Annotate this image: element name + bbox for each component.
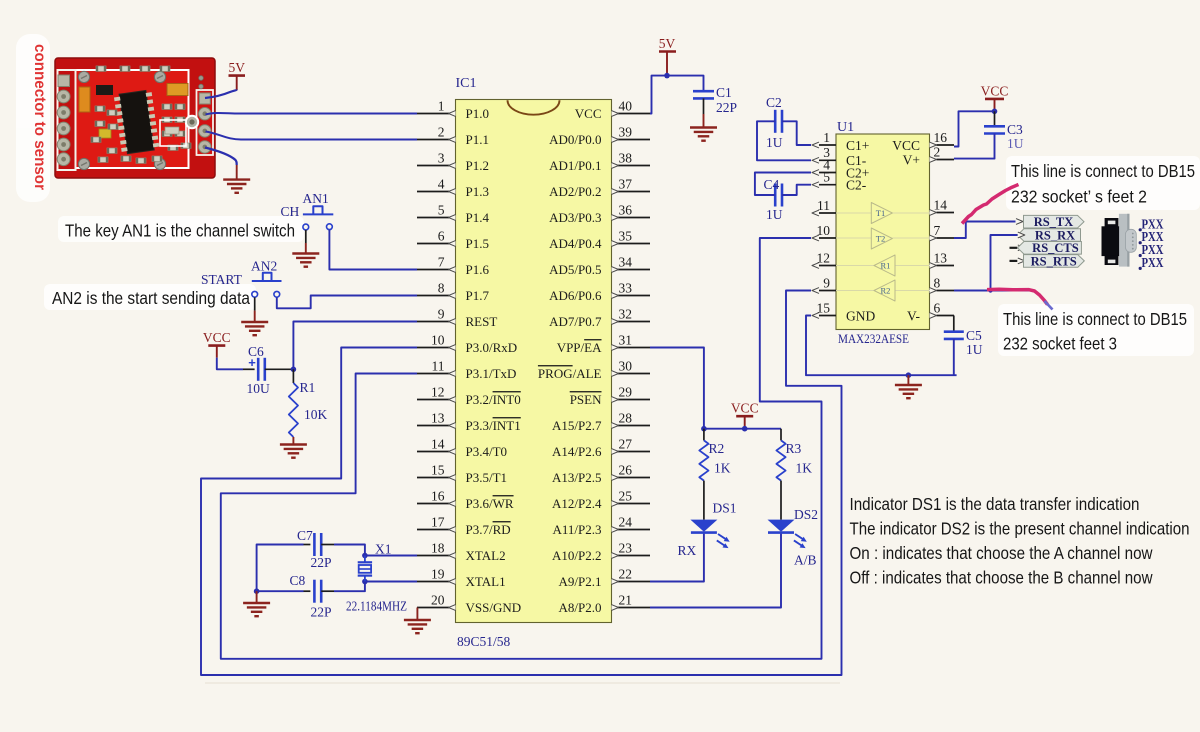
IC1 pin 12 P3.2 <box>417 384 521 407</box>
IC1 pin 29 <box>570 384 650 407</box>
IC1 pin 25 A12/P2.4 <box>552 488 650 511</box>
svg-text:P1.7: P1.7 <box>466 288 490 303</box>
svg-text:12: 12 <box>431 384 445 399</box>
wire U1 pin8 net <box>954 290 1031 292</box>
ground below C7C8 <box>243 603 270 616</box>
svg-text:10U: 10U <box>247 381 271 396</box>
svg-text:C5: C5 <box>966 328 982 343</box>
IC1 pin 5 P1.4 <box>417 202 489 225</box>
text DS1 line1 <box>850 494 1140 514</box>
svg-text:P3.1/TxD: P3.1/TxD <box>466 366 517 381</box>
svg-text:VCC: VCC <box>892 138 920 153</box>
IC1 pin 28 A15/P2.7 <box>552 410 650 433</box>
svg-text:38: 38 <box>619 150 633 165</box>
IC1 pin 39 AD0/P0.0 <box>549 124 650 147</box>
IC1 pin 19 XTAL1 <box>417 566 506 589</box>
svg-text:39: 39 <box>619 124 633 139</box>
svg-text:PSEN: PSEN <box>570 392 602 407</box>
svg-text:13: 13 <box>431 410 445 425</box>
svg-text:33: 33 <box>619 280 633 295</box>
svg-text:2: 2 <box>934 144 941 159</box>
svg-text:11: 11 <box>432 358 445 373</box>
wire U1 pin6 to C5 <box>953 316 955 332</box>
net port RS_TX <box>1024 215 1085 229</box>
power 5V symbol at module <box>228 60 245 90</box>
net port RS_RTS <box>1024 254 1085 268</box>
svg-text:T2: T2 <box>876 234 885 244</box>
svg-text:This line is connect to DB15: This line is connect to DB15 <box>1011 161 1195 181</box>
U1 pin 2 V+ <box>903 144 954 167</box>
U1 pin 8 <box>930 275 955 293</box>
wire VCC rail R2 to R3 <box>704 428 781 430</box>
U1 receiver R2 <box>874 280 895 301</box>
U1 pin 7 <box>930 223 955 241</box>
junction VCC/C3/pin16 <box>992 109 998 115</box>
svg-text:AD4/P0.4: AD4/P0.4 <box>549 236 602 251</box>
crystal X1 <box>358 556 372 582</box>
wire-arrow into RS_RTS <box>1018 258 1025 264</box>
wire IC1 pin20 to ground <box>416 608 418 621</box>
power VCC symbol near C3 <box>981 83 1009 99</box>
IC1 pin 34 AD5/P0.5 <box>549 254 650 277</box>
wire net TxD: U1 pin10 to IC1 pin11 <box>221 238 822 659</box>
junction 5V/C1/pin40 <box>664 73 670 79</box>
IC1 pin 26 A13/P2.5 <box>552 462 650 485</box>
IC1 pin 15 P3.5/T1 <box>417 462 507 485</box>
ground below C1 <box>690 128 717 141</box>
svg-text:VSS/GND: VSS/GND <box>466 600 522 615</box>
svg-text:1K: 1K <box>714 461 731 476</box>
svg-text:C2: C2 <box>766 95 782 110</box>
svg-text:24: 24 <box>619 514 633 529</box>
power VCC symbol near C6 <box>203 330 231 346</box>
svg-text:9: 9 <box>823 275 830 290</box>
U1 pin 13 <box>930 250 955 268</box>
wire junction to IC1 pin9 <box>293 322 417 370</box>
svg-text:A13/P2.5: A13/P2.5 <box>552 470 601 485</box>
svg-text:V-: V- <box>907 308 921 323</box>
svg-text:19: 19 <box>431 566 445 581</box>
svg-text:6: 6 <box>438 228 445 243</box>
resistor R2 lead <box>703 429 705 441</box>
wire-arrow into RS_RX <box>1018 232 1025 238</box>
svg-text:PROG/ALE: PROG/ALE <box>538 366 602 381</box>
capacitor C2 <box>775 110 782 133</box>
svg-text:30: 30 <box>619 358 633 373</box>
R1 labels <box>300 380 328 422</box>
C1 value labels <box>716 85 737 115</box>
svg-text:10K: 10K <box>304 407 328 422</box>
svg-text:connector to sensor: connector to sensor <box>31 44 48 190</box>
svg-text:1: 1 <box>823 130 830 145</box>
U1 pin 15 GND <box>812 300 875 323</box>
capacitor C1 <box>693 91 714 98</box>
IC1 pin 14 P3.4/T0 <box>417 436 507 459</box>
svg-text:AN1: AN1 <box>303 191 329 206</box>
junction GND rail <box>906 372 912 378</box>
svg-text:10: 10 <box>431 332 445 347</box>
svg-text:AD0/P0.0: AD0/P0.0 <box>549 132 601 147</box>
CH net label <box>281 204 300 219</box>
text Off line4 <box>850 568 1153 588</box>
HX711 sensor module photo <box>55 58 215 178</box>
svg-text:5: 5 <box>438 202 445 217</box>
IC1 pin 2 P1.1 <box>417 124 489 147</box>
IC1 part label 89C51/58 <box>457 634 511 649</box>
wire module pad to ground <box>205 148 237 166</box>
svg-text:8: 8 <box>438 280 445 295</box>
svg-text:VCC: VCC <box>981 83 1009 98</box>
svg-text:The key AN1 is the channel swi: The key AN1 is the channel switch <box>65 221 295 241</box>
switch AN2 symbol <box>252 273 282 297</box>
svg-text:29: 29 <box>619 384 633 399</box>
IC1 pin 37 AD2/P0.2 <box>549 176 650 199</box>
resistor R2 <box>699 440 708 480</box>
stub RS_RTS <box>1010 260 1018 262</box>
svg-text:18: 18 <box>431 540 445 555</box>
wire C8 right to X1 net <box>321 582 365 592</box>
svg-text:AN2 is the start sending data: AN2 is the start sending data <box>52 288 250 308</box>
svg-text:22: 22 <box>619 566 633 581</box>
U1 pin 12 <box>812 250 836 268</box>
svg-text:MAX232AESE: MAX232AESE <box>838 331 909 346</box>
U1 part label MAX232AESE <box>838 331 909 346</box>
svg-text:1U: 1U <box>1007 136 1024 151</box>
svg-text:RS_RTS: RS_RTS <box>1031 254 1077 268</box>
ground below U1 <box>895 375 922 398</box>
svg-text:31: 31 <box>619 332 633 347</box>
wire module to IC1 pin2 <box>206 132 418 140</box>
svg-text:7: 7 <box>438 254 445 269</box>
capacitor C6 polar <box>248 355 265 381</box>
svg-text:P1.6: P1.6 <box>466 262 490 277</box>
svg-text:1: 1 <box>438 98 445 113</box>
svg-text:AD6/P0.6: AD6/P0.6 <box>549 288 602 303</box>
svg-text:A8/P2.0: A8/P2.0 <box>559 600 602 615</box>
svg-text:32: 32 <box>619 306 633 321</box>
ground below AN2 <box>241 322 268 335</box>
svg-text:A12/P2.4: A12/P2.4 <box>552 496 602 511</box>
svg-text:C1+: C1+ <box>846 138 869 153</box>
svg-text:VCC: VCC <box>731 401 759 416</box>
svg-text:P3.5/T1: P3.5/T1 <box>466 470 508 485</box>
wire C8 left <box>257 590 311 592</box>
module ground stem <box>236 165 238 180</box>
U1 pin 5 C2- <box>812 170 867 193</box>
text DB15 feet3 line2 <box>1003 334 1117 354</box>
wire net RxD: U1 pin9 to IC1 pin10 <box>201 291 842 676</box>
svg-text:REST: REST <box>466 314 498 329</box>
svg-text:RS_CTS: RS_CTS <box>1032 241 1079 255</box>
svg-text:XTAL1: XTAL1 <box>466 574 506 589</box>
U1 driver T2 <box>871 228 892 249</box>
svg-text:AD7/P0.7: AD7/P0.7 <box>549 314 602 329</box>
svg-text:15: 15 <box>431 462 445 477</box>
wire R3 to DS2 <box>780 481 782 520</box>
svg-text:P1.1: P1.1 <box>466 132 489 147</box>
IC1 refdes label <box>456 76 477 91</box>
svg-text:The indicator DS2 is the prese: The indicator DS2 is the present channel… <box>850 519 1190 539</box>
IC1 pin 4 P1.3 <box>417 176 489 199</box>
annotation arrow to feet3 text <box>987 289 1053 309</box>
svg-text:R1: R1 <box>300 380 316 395</box>
svg-text:CH: CH <box>281 204 300 219</box>
capacitor C7 <box>314 533 321 556</box>
U1 refdes label <box>837 120 854 135</box>
U1 pin 16 VCC <box>892 130 954 153</box>
U1 pin 1 C1+ <box>812 130 869 153</box>
svg-text:P3.7/RD: P3.7/RD <box>466 522 511 537</box>
U1 pin 10 <box>812 223 836 241</box>
VCC stem to rail <box>744 416 746 429</box>
U1 pin 4 C2+ <box>812 157 869 180</box>
IC1 pin 23 A10/P2.2 <box>552 540 650 563</box>
X1 value 22.1184MHZ <box>346 599 407 614</box>
IC1 pin 16 P3.6 <box>417 488 514 511</box>
wire junction to C3 <box>994 111 996 126</box>
svg-text:22P: 22P <box>716 100 737 115</box>
IC1 pin 18 XTAL2 <box>417 540 506 563</box>
svg-text:13: 13 <box>934 250 948 265</box>
svg-text:A11/P2.3: A11/P2.3 <box>553 522 602 537</box>
svg-text:232 socket feet 3: 232 socket feet 3 <box>1003 334 1117 354</box>
svg-text:20: 20 <box>431 592 445 607</box>
R2 labels <box>709 441 731 476</box>
VCC stem <box>994 99 996 111</box>
svg-text:C4: C4 <box>764 177 780 192</box>
svg-text:P1.5: P1.5 <box>466 236 489 251</box>
IC1 notch <box>508 100 560 115</box>
wire VCC to C6 <box>217 358 255 370</box>
svg-text:AD1/P0.1: AD1/P0.1 <box>549 158 601 173</box>
svg-text:22P: 22P <box>311 605 332 620</box>
wire IC1 pin31 to VCC junction <box>650 348 704 429</box>
wire junction to ground <box>256 591 258 603</box>
IC1 pin 13 P3.3 <box>417 410 521 433</box>
svg-text:A14/P2.6: A14/P2.6 <box>552 444 602 459</box>
U1 pin 9 <box>812 275 836 293</box>
svg-text:R2: R2 <box>709 441 725 456</box>
IC MAX232AESE U1 body <box>836 134 930 330</box>
wire R2 to DS1 <box>703 481 705 520</box>
svg-text:16: 16 <box>431 488 445 503</box>
wire U1 pin7 to RS_TX <box>954 222 1016 239</box>
text key AN1 <box>65 221 295 241</box>
wire C7 right to X1 net <box>321 545 365 556</box>
capacitor C3 <box>984 126 1005 133</box>
svg-text:1U: 1U <box>966 342 983 357</box>
switch AN1 symbol <box>303 206 333 230</box>
svg-text:37: 37 <box>619 176 633 191</box>
svg-text:7: 7 <box>934 223 941 238</box>
wire IC1 pin18 to X1 <box>365 555 417 557</box>
IC1 pin 3 P1.2 <box>417 150 489 173</box>
svg-text:C2-: C2- <box>846 178 867 193</box>
junction pin8/RS_RX <box>988 288 992 292</box>
svg-text:RX: RX <box>678 543 697 558</box>
junction rail/R2 <box>701 426 707 432</box>
resistor R3 <box>776 440 785 480</box>
power 5V symbol <box>659 36 676 76</box>
wire R1 to ground <box>292 437 294 445</box>
svg-text:DS2: DS2 <box>794 507 818 522</box>
wire AN2 left to ground <box>254 297 256 322</box>
svg-text:2: 2 <box>438 124 445 139</box>
wire C5 to ground rail <box>953 339 955 375</box>
IC1 pin 6 P1.5 <box>417 228 489 251</box>
IC1 pin 40 VCC <box>575 98 650 121</box>
wire pin16 to VCC junction <box>954 111 995 146</box>
svg-text:12: 12 <box>817 250 831 265</box>
svg-text:P1.3: P1.3 <box>466 184 489 199</box>
svg-text:40: 40 <box>619 98 633 113</box>
svg-text:T1: T1 <box>876 208 885 218</box>
svg-text:35: 35 <box>619 228 633 243</box>
IC1 pin 17 P3.7 <box>417 514 511 537</box>
net labels PXX x4 <box>1139 216 1164 270</box>
wire C2 to U1 pin3 <box>757 121 811 160</box>
IC1 pin 9 REST <box>417 306 497 329</box>
svg-text:Indicator DS1 is the data tran: Indicator DS1 is the data transfer indic… <box>850 494 1140 514</box>
junction C7/C8/ground <box>254 588 260 594</box>
DS2 labels <box>794 507 818 568</box>
R3 labels <box>786 441 813 476</box>
junction C6/R1/pin9 <box>291 367 297 373</box>
svg-text:14: 14 <box>934 197 948 212</box>
svg-text:21: 21 <box>619 592 633 607</box>
wire C6 to junction <box>265 368 294 370</box>
svg-text:P1.2: P1.2 <box>466 158 489 173</box>
svg-text:1K: 1K <box>796 461 813 476</box>
DB15 socket photo <box>1102 214 1137 267</box>
svg-text:P3.3/INT1: P3.3/INT1 <box>466 418 521 433</box>
svg-text:C1: C1 <box>716 85 732 100</box>
U1 pin 11 <box>812 198 836 216</box>
IC 89C51/58 U-IC1 body <box>456 100 612 623</box>
wire C3 to pin2 <box>954 134 995 159</box>
wire C2 to U1 pin1 <box>782 121 811 145</box>
IC1 pin 33 AD6/P0.6 <box>549 280 650 303</box>
svg-text:25: 25 <box>619 488 633 503</box>
resistor R1 lead top <box>292 369 294 383</box>
wire-arrow into RS_TX <box>1016 219 1023 225</box>
LED DS2 <box>768 520 807 549</box>
wire C1 to ground <box>703 98 705 127</box>
svg-text:P3.2/INT0: P3.2/INT0 <box>466 392 521 407</box>
C2 value labels <box>766 95 783 150</box>
resistor R3 lead <box>780 429 782 441</box>
svg-text:VPP/EA: VPP/EA <box>557 340 602 355</box>
wire module to IC1 pin1 <box>206 113 418 115</box>
text DS2 line2 <box>850 519 1190 539</box>
IC1 pin 22 A9/P2.1 <box>559 566 650 589</box>
svg-text:V+: V+ <box>903 152 920 167</box>
svg-text:22.1184MHZ: 22.1184MHZ <box>346 599 407 614</box>
text DB15 feet2 line1 <box>1011 161 1195 181</box>
svg-text:A9/P2.1: A9/P2.1 <box>559 574 602 589</box>
svg-text:R1: R1 <box>881 261 891 271</box>
svg-text:P3.4/T0: P3.4/T0 <box>466 444 508 459</box>
IC1 pin 7 P1.6 <box>417 254 489 277</box>
IC1 pin 30 <box>538 358 650 381</box>
wire C7 left <box>257 545 311 592</box>
wire AN1 to IC1 pin7 <box>329 230 417 270</box>
svg-text:IC1: IC1 <box>456 76 477 91</box>
C4 value labels <box>764 177 783 222</box>
svg-text:232 socket’ s feet 2: 232 socket’ s feet 2 <box>1011 187 1147 207</box>
svg-text:1U: 1U <box>766 135 783 150</box>
svg-text:8: 8 <box>934 275 941 290</box>
IC1 pin 1 P1.0 <box>417 98 489 121</box>
IC1 pin 11 P3.1/TxD <box>417 358 516 381</box>
svg-text:Off : indicates that choose th: Off : indicates that choose the B channe… <box>850 568 1153 588</box>
IC1 pin 31 <box>557 332 650 355</box>
svg-text:14: 14 <box>431 436 445 451</box>
svg-text:11: 11 <box>817 198 830 213</box>
svg-text:AD2/P0.2: AD2/P0.2 <box>549 184 601 199</box>
svg-text:A10/P2.2: A10/P2.2 <box>552 548 601 563</box>
svg-text:RS_TX: RS_TX <box>1034 215 1074 229</box>
svg-text:C7: C7 <box>297 528 313 543</box>
IC1 pin 24 A11/P2.3 <box>553 514 651 537</box>
ground below module <box>223 180 250 193</box>
capacitor C5 <box>944 332 964 339</box>
START net label <box>201 272 243 287</box>
svg-text:AD3/P0.3: AD3/P0.3 <box>549 210 601 225</box>
svg-text:C3: C3 <box>1007 122 1023 137</box>
wire AN1 left to ground <box>305 230 307 254</box>
IC1 pin 8 P1.7 <box>417 280 489 303</box>
svg-text:DS1: DS1 <box>713 501 737 516</box>
IC1 pin 32 AD7/P0.7 <box>549 306 650 329</box>
stub RS_CTS <box>1010 247 1018 249</box>
svg-text:34: 34 <box>619 254 633 269</box>
wire C4 to U1 pin4 <box>755 173 811 196</box>
VCC stem near C6 <box>216 346 218 358</box>
AN1 label <box>303 191 329 206</box>
svg-text:PXX: PXX <box>1142 255 1164 270</box>
svg-text:16: 16 <box>934 130 948 145</box>
wire RS_RX to pin8 net <box>991 235 1018 291</box>
svg-text:4: 4 <box>438 176 445 191</box>
text DB15 feet3 line1 <box>1003 309 1187 329</box>
svg-text:5: 5 <box>823 170 830 185</box>
wire AN2 to IC1 pin8 <box>277 296 417 309</box>
wire pin40 to 5V junction <box>650 76 704 114</box>
svg-text:R3: R3 <box>786 441 802 456</box>
AN2 label <box>251 259 277 274</box>
svg-text:P1.0: P1.0 <box>466 106 489 121</box>
svg-text:1U: 1U <box>766 207 783 222</box>
ground below R1 <box>280 445 307 458</box>
U1 pin 14 <box>930 197 955 215</box>
svg-text:28: 28 <box>619 410 633 425</box>
U1 internal signal lines <box>836 213 930 291</box>
svg-text:AN2: AN2 <box>251 259 277 274</box>
IC1 pin 38 AD1/P0.1 <box>549 150 650 173</box>
IC1 pin 21 A8/P2.0 <box>559 592 650 615</box>
ground below AN1 <box>292 254 319 267</box>
svg-text:15: 15 <box>817 300 831 315</box>
svg-text:9: 9 <box>438 306 445 321</box>
net port RS_RX <box>1018 228 1081 242</box>
wire module pad to 5V <box>205 90 237 99</box>
U1 pin 6 V- <box>907 300 954 323</box>
svg-text:5V: 5V <box>228 60 245 75</box>
IC1 pin 35 AD4/P0.4 <box>549 228 650 251</box>
wire IC1 pin19 to X1 <box>365 581 417 583</box>
junction X1 top <box>362 553 368 559</box>
